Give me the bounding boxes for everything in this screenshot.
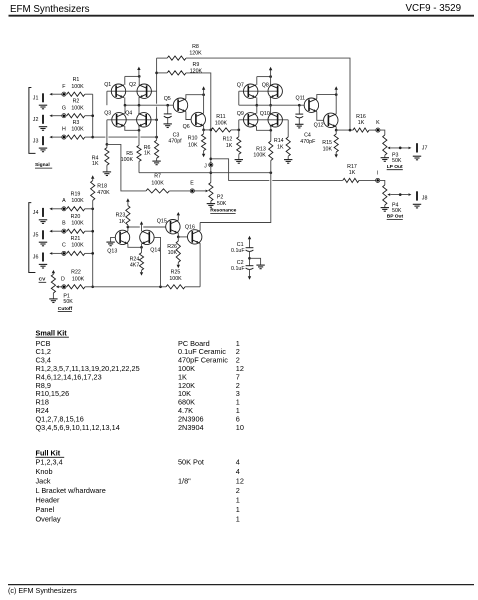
resistor R10 <box>202 130 206 154</box>
wire quad base row lower-left <box>107 118 158 121</box>
label J2 <box>33 117 39 123</box>
svg-text:1K: 1K <box>144 151 151 157</box>
wire node to Q4 collector <box>138 105 140 113</box>
resistor R21 <box>66 251 85 255</box>
svg-text:A: A <box>62 198 66 204</box>
svg-text:C1: C1 <box>237 242 244 248</box>
wire jack J2 to node G <box>49 114 61 117</box>
wire R3 to signal bus <box>85 136 93 138</box>
label node H <box>62 127 66 133</box>
wire Q3 base loop <box>106 120 108 145</box>
svg-text:Q12: Q12 <box>314 122 324 128</box>
ground (J6) <box>39 264 47 268</box>
wire Q8 emitter to node <box>269 98 272 107</box>
svg-text:Panel: Panel <box>36 505 55 514</box>
svg-text:(c) EFM Synthesizers: (c) EFM Synthesizers <box>8 586 77 595</box>
wire Q13 emitter down <box>128 244 142 248</box>
node G <box>62 114 66 118</box>
label node B <box>62 221 66 227</box>
label R9 value <box>190 62 203 74</box>
svg-text:R3: R3 <box>73 120 80 126</box>
label J8 <box>422 195 428 201</box>
svg-text:Header: Header <box>36 496 61 505</box>
wire R4 junction to R7 <box>107 144 146 191</box>
svg-text:R26: R26 <box>167 244 177 250</box>
parts list row R18 <box>36 398 240 407</box>
+V arrow (R18) <box>91 175 94 180</box>
svg-text:100K: 100K <box>71 127 84 133</box>
svg-text:50K: 50K <box>217 201 227 207</box>
parts list row R24 <box>36 406 240 415</box>
label J3 <box>33 138 39 144</box>
svg-text:R23: R23 <box>116 212 126 218</box>
wire node J to P2 <box>209 167 212 183</box>
resistor R11 <box>211 128 231 132</box>
wire CV bottom bus <box>93 285 166 288</box>
label Q4 <box>125 111 132 117</box>
svg-text:EFM Synthesizers: EFM Synthesizers <box>10 4 90 15</box>
jack J8 <box>416 191 418 200</box>
wire R2 to signal bus <box>85 115 93 117</box>
svg-text:BP Out: BP Out <box>387 214 404 220</box>
svg-text:1: 1 <box>236 515 240 524</box>
wire Q9 emitter down <box>257 126 271 130</box>
svg-text:R22: R22 <box>71 269 81 275</box>
+V arrow (Q11/Q12) <box>335 86 338 94</box>
wire Q1 emitter to node <box>124 98 126 106</box>
wire Q2 collector to rail <box>138 76 140 85</box>
wire Q5/Q6 rail junction <box>202 93 205 96</box>
svg-text:R20: R20 <box>71 214 81 220</box>
svg-text:R11: R11 <box>216 114 225 120</box>
label BP Out <box>387 214 404 220</box>
label P4 value <box>392 202 402 214</box>
svg-text:2: 2 <box>236 486 240 495</box>
svg-text:0.1uF: 0.1uF <box>231 266 245 272</box>
wire node K to P3 <box>380 130 385 135</box>
label Q2 <box>129 82 136 88</box>
node B <box>62 229 66 233</box>
wire Q14 collector <box>141 225 143 232</box>
ground (C3) <box>164 124 172 128</box>
label J7 <box>422 145 428 151</box>
ground (J3) <box>39 148 47 152</box>
svg-text:10K: 10K <box>323 147 333 153</box>
wire node to Q10 collector <box>270 105 272 113</box>
svg-text:50K: 50K <box>63 299 73 305</box>
wire jack J5 to node B <box>49 230 61 233</box>
svg-text:100K: 100K <box>151 180 164 186</box>
resistor R3 <box>66 135 85 139</box>
resistor R26 <box>176 237 180 265</box>
transistor Q10 <box>268 113 282 127</box>
svg-text:R25: R25 <box>171 270 181 276</box>
node A <box>62 207 66 211</box>
label CV <box>39 277 47 283</box>
svg-text:R1: R1 <box>73 77 80 83</box>
label R23 value <box>116 212 126 224</box>
header rule <box>9 15 475 17</box>
svg-text:Q6: Q6 <box>183 124 190 130</box>
+V arrow (right quad) <box>269 67 272 77</box>
svg-text:Q13: Q13 <box>107 248 117 254</box>
potentiometer P3 <box>383 135 412 158</box>
svg-text:C2: C2 <box>237 260 244 266</box>
label node A <box>62 198 66 204</box>
ground (J7) <box>413 156 421 160</box>
jack J5 <box>42 230 44 239</box>
svg-text:50K: 50K <box>392 158 402 164</box>
label node I <box>377 170 378 176</box>
ground (J1) <box>39 105 47 109</box>
resistor R6 <box>155 137 159 161</box>
parts list row R10,15,26 <box>36 389 240 398</box>
node J <box>209 163 213 167</box>
resistor R1 <box>66 92 85 96</box>
svg-text:Signal: Signal <box>35 162 50 168</box>
node C <box>62 251 66 255</box>
svg-text:Q3,4,5,6,9,10,11,12,13,14: Q3,4,5,6,9,10,11,12,13,14 <box>36 423 120 432</box>
svg-text:12: 12 <box>236 477 244 486</box>
svg-text:R8: R8 <box>192 44 199 50</box>
wire Q10 base to R14 <box>287 120 289 137</box>
svg-text:J2: J2 <box>33 117 39 123</box>
resistor R15 <box>334 130 338 155</box>
svg-text:P2: P2 <box>217 195 224 201</box>
wire C1-C2 junction <box>248 251 251 266</box>
wire Q6 collector <box>203 95 205 113</box>
label C3 value <box>168 133 182 145</box>
+V arrow (R23) <box>126 198 129 201</box>
label node J <box>204 163 207 169</box>
transistor Q14 <box>140 230 154 244</box>
-V arrow (C2) <box>248 269 251 280</box>
parts list row C3,4 <box>36 356 240 365</box>
wire Q11 collector to rail <box>317 95 336 99</box>
transistor Q6 <box>191 112 205 126</box>
+V arrow (C1) <box>248 236 251 248</box>
wire junction to ground <box>250 258 261 265</box>
wire Q5 collector to rail <box>186 95 204 99</box>
parts list row Q3,4,5,6,9,10,11,12,13,14 <box>36 423 244 432</box>
wire node I to P4 <box>380 180 385 185</box>
label Q10 <box>260 111 270 117</box>
transistor Q5 <box>173 98 187 112</box>
svg-text:Resonance: Resonance <box>210 208 236 214</box>
svg-text:1K: 1K <box>358 120 365 126</box>
svg-text:J6: J6 <box>33 255 39 261</box>
svg-text:120K: 120K <box>190 68 203 74</box>
resistor R14 <box>286 137 290 160</box>
svg-text:100K: 100K <box>71 84 84 90</box>
header part number <box>406 3 462 14</box>
wire Q2 emitter to node <box>138 98 140 106</box>
svg-text:D: D <box>61 276 65 282</box>
parts list row R8,9 <box>36 381 240 390</box>
label R8 value <box>189 44 202 56</box>
parts list row Header <box>36 496 240 505</box>
svg-text:LP Out: LP Out <box>387 164 403 170</box>
wire node to Q9 collector <box>256 105 258 113</box>
wire Q9 base loop <box>238 120 240 130</box>
ground (Q13 base) <box>106 242 114 246</box>
resistor R13 <box>269 130 273 172</box>
svg-text:100K: 100K <box>215 121 228 127</box>
label R13 value <box>253 147 266 159</box>
svg-text:R12: R12 <box>223 137 233 143</box>
label C4 value <box>300 133 316 145</box>
svg-text:K: K <box>376 120 380 126</box>
wire Q13 collector to Q15 base (hop at Q14 collector) <box>128 226 166 228</box>
svg-text:J5: J5 <box>33 232 39 238</box>
wire quad base row upper-right <box>239 90 279 92</box>
svg-text:Q15: Q15 <box>157 219 167 225</box>
svg-text:1/8": 1/8" <box>178 477 191 486</box>
cv input bracket <box>29 203 36 273</box>
label C1 value <box>231 242 245 254</box>
wire Q13 base to ground <box>111 237 116 242</box>
svg-text:120K: 120K <box>189 51 202 57</box>
wire R19 to CV bus <box>85 208 93 210</box>
svg-text:100K: 100K <box>71 243 84 249</box>
svg-text:4: 4 <box>236 458 240 467</box>
svg-text:Q14: Q14 <box>150 247 160 253</box>
label Q16 <box>185 224 195 230</box>
wire Q15 collector up <box>177 215 179 220</box>
svg-text:1K: 1K <box>226 143 233 149</box>
label R21 value <box>71 236 85 249</box>
svg-text:Overlay: Overlay <box>36 515 61 524</box>
svg-text:R2: R2 <box>73 98 80 104</box>
svg-text:F: F <box>62 84 66 90</box>
+V arrow (Q14) <box>140 221 143 224</box>
label Q15 <box>157 219 167 225</box>
label P1 value <box>63 293 73 305</box>
svg-text:Small Kit: Small Kit <box>36 328 68 337</box>
ground (J8) <box>413 204 421 208</box>
parts list row C1,2 <box>36 347 240 356</box>
wire jack J6 to node C <box>49 252 61 255</box>
wire Q1 collector to rail <box>124 76 126 85</box>
transistor Q15 <box>166 220 180 234</box>
svg-text:Q10: Q10 <box>260 111 270 117</box>
label Q11 <box>296 95 306 101</box>
ground (R4) <box>103 172 111 176</box>
wire Q14 base to CV bus <box>154 237 160 286</box>
label R1 value <box>71 77 84 90</box>
transistor Q1 <box>111 84 125 98</box>
label Q1 <box>104 82 111 88</box>
svg-text:Q3: Q3 <box>104 111 111 117</box>
svg-text:Knob: Knob <box>36 467 53 476</box>
label R15 value <box>322 140 332 152</box>
cv summing bus <box>91 207 94 288</box>
label Q6 <box>183 124 190 130</box>
svg-text:R19: R19 <box>71 191 81 197</box>
label J6 <box>33 255 39 261</box>
label J5 <box>33 232 39 238</box>
svg-text:2N3904: 2N3904 <box>178 423 204 432</box>
resistor R2 <box>66 114 85 118</box>
svg-text:C4: C4 <box>304 133 311 139</box>
svg-text:470pf: 470pf <box>168 138 182 144</box>
+V arrow (left quad) <box>137 67 140 77</box>
svg-text:1K: 1K <box>349 170 356 176</box>
label Cutoff <box>58 306 73 312</box>
svg-text:Q11: Q11 <box>296 95 306 101</box>
wire R1 to signal bus <box>85 93 93 95</box>
wire quad base row lower-right <box>239 119 288 121</box>
label P2 value <box>217 195 227 207</box>
transistor Q12 <box>324 113 338 127</box>
svg-text:100K: 100K <box>253 153 266 159</box>
svg-text:J8: J8 <box>422 195 428 201</box>
svg-text:J1: J1 <box>33 95 39 101</box>
node I <box>376 178 380 182</box>
svg-text:50K Pot: 50K Pot <box>178 458 204 467</box>
svg-text:R15: R15 <box>322 140 332 146</box>
svg-text:Jack: Jack <box>36 477 51 486</box>
label Q13 <box>107 248 117 254</box>
resistor R18 <box>91 181 95 209</box>
wire Q12 emitter to K row <box>335 127 338 132</box>
svg-text:R13: R13 <box>256 147 266 153</box>
wire I branch <box>211 159 269 181</box>
wire Q11 emitter to Q12 base <box>317 112 324 121</box>
svg-text:Q4: Q4 <box>125 111 132 117</box>
header title <box>10 4 90 15</box>
svg-text:1K: 1K <box>119 219 126 225</box>
wire I branch continued (hop at R13 vertical) <box>272 179 343 181</box>
svg-text:1K: 1K <box>92 161 99 167</box>
wire Q7 base loop <box>239 91 257 105</box>
label Q3 <box>104 111 111 117</box>
svg-text:I: I <box>377 170 378 176</box>
wire K row <box>336 129 353 132</box>
label R18 value <box>97 184 110 196</box>
transistor Q8 <box>268 84 282 98</box>
wire Q7 collector to rail <box>256 77 258 85</box>
label J4 <box>33 210 39 216</box>
transistor Q9 <box>244 113 258 127</box>
svg-text:J: J <box>204 163 207 169</box>
resistor R4 <box>105 144 109 172</box>
transistor Q4 <box>137 113 151 127</box>
svg-text:J4: J4 <box>33 210 39 216</box>
capacitor C3 <box>164 105 172 124</box>
label Q12 <box>314 122 324 128</box>
svg-text:R9: R9 <box>193 62 200 68</box>
svg-text:1K: 1K <box>277 144 284 150</box>
wire R16 to node K <box>369 129 376 131</box>
node E <box>190 189 194 193</box>
transistor Q16 <box>188 230 202 244</box>
transistor Q3 <box>112 113 126 127</box>
label R16 value <box>356 114 366 126</box>
node F <box>62 92 66 96</box>
transistor Q11 <box>304 98 318 112</box>
svg-text:Cutoff: Cutoff <box>58 306 73 312</box>
wire R13 to Q16 collector (feedback) <box>200 173 271 223</box>
parts list row Panel <box>36 505 240 514</box>
svg-text:R18: R18 <box>97 184 107 190</box>
resistor R7 <box>146 189 190 193</box>
wire Q13 collector to R23 <box>127 226 130 231</box>
parts list row Overlay <box>36 515 240 524</box>
parts list row Jack <box>36 477 244 486</box>
svg-text:R10: R10 <box>188 136 198 142</box>
resistor R24 <box>139 247 143 272</box>
label R17 value <box>347 164 357 176</box>
svg-text:100K: 100K <box>121 157 134 163</box>
resistor R19 <box>66 207 85 211</box>
-V arrow (R24) <box>140 272 143 275</box>
ground (P1) <box>49 299 57 303</box>
svg-text:100K: 100K <box>169 276 182 282</box>
wire quad base row upper-left <box>107 90 157 92</box>
label R11 value <box>215 114 228 126</box>
label Signal <box>35 162 52 168</box>
transistor Q2 <box>137 84 151 98</box>
label node D <box>61 276 65 282</box>
wire Q6 emitter to R11 row <box>202 126 211 131</box>
wire Q3 emitter down <box>125 126 139 130</box>
footer rule <box>8 584 474 586</box>
parts list row Q1,2,7,8,15,16 <box>36 414 240 423</box>
ground (P2) <box>207 204 215 208</box>
jack J2 <box>42 115 44 124</box>
svg-text:R7: R7 <box>154 174 161 180</box>
wire R17 to node I <box>359 179 376 181</box>
resistor R5 <box>137 130 141 172</box>
resistor R9 <box>157 71 186 75</box>
svg-text:Q16: Q16 <box>185 224 195 230</box>
wire R8 feedback to LP node <box>186 58 350 130</box>
-V arrow (R15) <box>335 154 338 157</box>
label R19 value <box>71 191 85 204</box>
ground (J4) <box>39 220 47 224</box>
svg-text:Q9: Q9 <box>237 111 244 117</box>
svg-text:10: 10 <box>236 423 244 432</box>
label R25 value <box>169 270 182 282</box>
svg-text:R24: R24 <box>130 256 140 262</box>
parts list row R4,6,12,14,16,17,23 <box>36 372 240 381</box>
label Q14 <box>150 247 160 253</box>
resistor R12 <box>237 130 241 160</box>
jack J6 <box>42 253 44 262</box>
svg-text:4: 4 <box>236 467 240 476</box>
wire Q15 emitter to Q16 base <box>177 233 188 238</box>
wire Q8 collector to rail <box>270 77 272 85</box>
svg-text:470K: 470K <box>97 190 110 196</box>
parts list row L Bracket w/hardware <box>36 486 240 495</box>
right quad emitter node line <box>257 104 304 107</box>
ground (P3) <box>381 158 389 162</box>
parts list heading Small Kit <box>36 328 69 337</box>
left quad +V rail <box>125 75 141 78</box>
svg-text:50K: 50K <box>392 208 402 214</box>
label Resonance <box>210 208 236 214</box>
svg-text:Q5: Q5 <box>164 96 171 102</box>
label R22 value <box>71 269 85 282</box>
label J1 <box>33 95 39 101</box>
label node G <box>62 105 66 111</box>
svg-text:R21: R21 <box>71 236 81 242</box>
potentiometer P4 <box>383 185 412 208</box>
svg-text:B: B <box>62 221 66 227</box>
label P3 value <box>392 153 402 165</box>
label R20 value <box>71 214 85 227</box>
